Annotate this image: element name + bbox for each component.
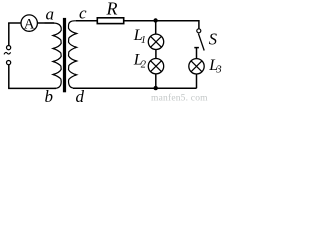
secondary winding path bbox=[69, 21, 79, 88]
transformer core bbox=[63, 18, 66, 92]
svg-text:3: 3 bbox=[215, 64, 221, 75]
lamp L1 circle bbox=[148, 34, 163, 49]
secondary coil cd bbox=[69, 21, 79, 88]
resistor R box bbox=[97, 18, 123, 24]
svg-text:S: S bbox=[209, 30, 217, 49]
wire top right (c to R) bbox=[76, 20, 97, 22]
wire lamp column top lead bbox=[155, 21, 157, 34]
terminal T2 bbox=[7, 61, 11, 65]
wire top left bbox=[8, 22, 54, 24]
wire R to switch corner bbox=[125, 21, 199, 29]
svg-text:2: 2 bbox=[141, 60, 147, 71]
lamp L2 cross bbox=[151, 61, 162, 72]
svg-text:A: A bbox=[24, 16, 35, 32]
wire left rail bottom bbox=[8, 65, 10, 89]
secondary loop crossing knots bbox=[74, 32, 76, 75]
switch S contact cap bbox=[194, 47, 199, 49]
svg-text:a: a bbox=[46, 5, 55, 24]
label ~ (AC source) bbox=[4, 52, 11, 54]
lamp L3 cross bbox=[191, 61, 202, 72]
wire bottom left bbox=[8, 87, 56, 89]
svg-text:R: R bbox=[106, 0, 118, 19]
wire bottom right bbox=[73, 87, 197, 89]
primary winding path bbox=[45, 23, 62, 88]
svg-text:c: c bbox=[79, 4, 87, 23]
wire L2 bottom lead bbox=[155, 74, 157, 87]
node junction bottom bbox=[154, 86, 158, 90]
lamp L1 cross bbox=[151, 36, 162, 47]
wire contact to L3 bbox=[196, 48, 198, 59]
terminal T1 bbox=[7, 46, 11, 50]
switch S blade bbox=[198, 34, 204, 51]
primary loop crossing knots bbox=[53, 34, 55, 75]
wire left rail top bbox=[8, 23, 10, 46]
switch S pivot bbox=[197, 29, 201, 33]
svg-text:manfen5. com: manfen5. com bbox=[151, 93, 208, 102]
primary coil ab bbox=[45, 23, 62, 88]
svg-text:d: d bbox=[76, 87, 85, 102]
svg-text:b: b bbox=[45, 87, 54, 102]
ammeter A circle bbox=[21, 15, 37, 31]
wire L3 bottom lead bbox=[196, 74, 198, 88]
node junction top bbox=[153, 18, 157, 22]
lamp L2 circle bbox=[148, 58, 163, 73]
lamp L3 circle bbox=[189, 59, 204, 74]
svg-text:1: 1 bbox=[141, 35, 146, 46]
wire L1 to L2 lead bbox=[155, 50, 157, 59]
